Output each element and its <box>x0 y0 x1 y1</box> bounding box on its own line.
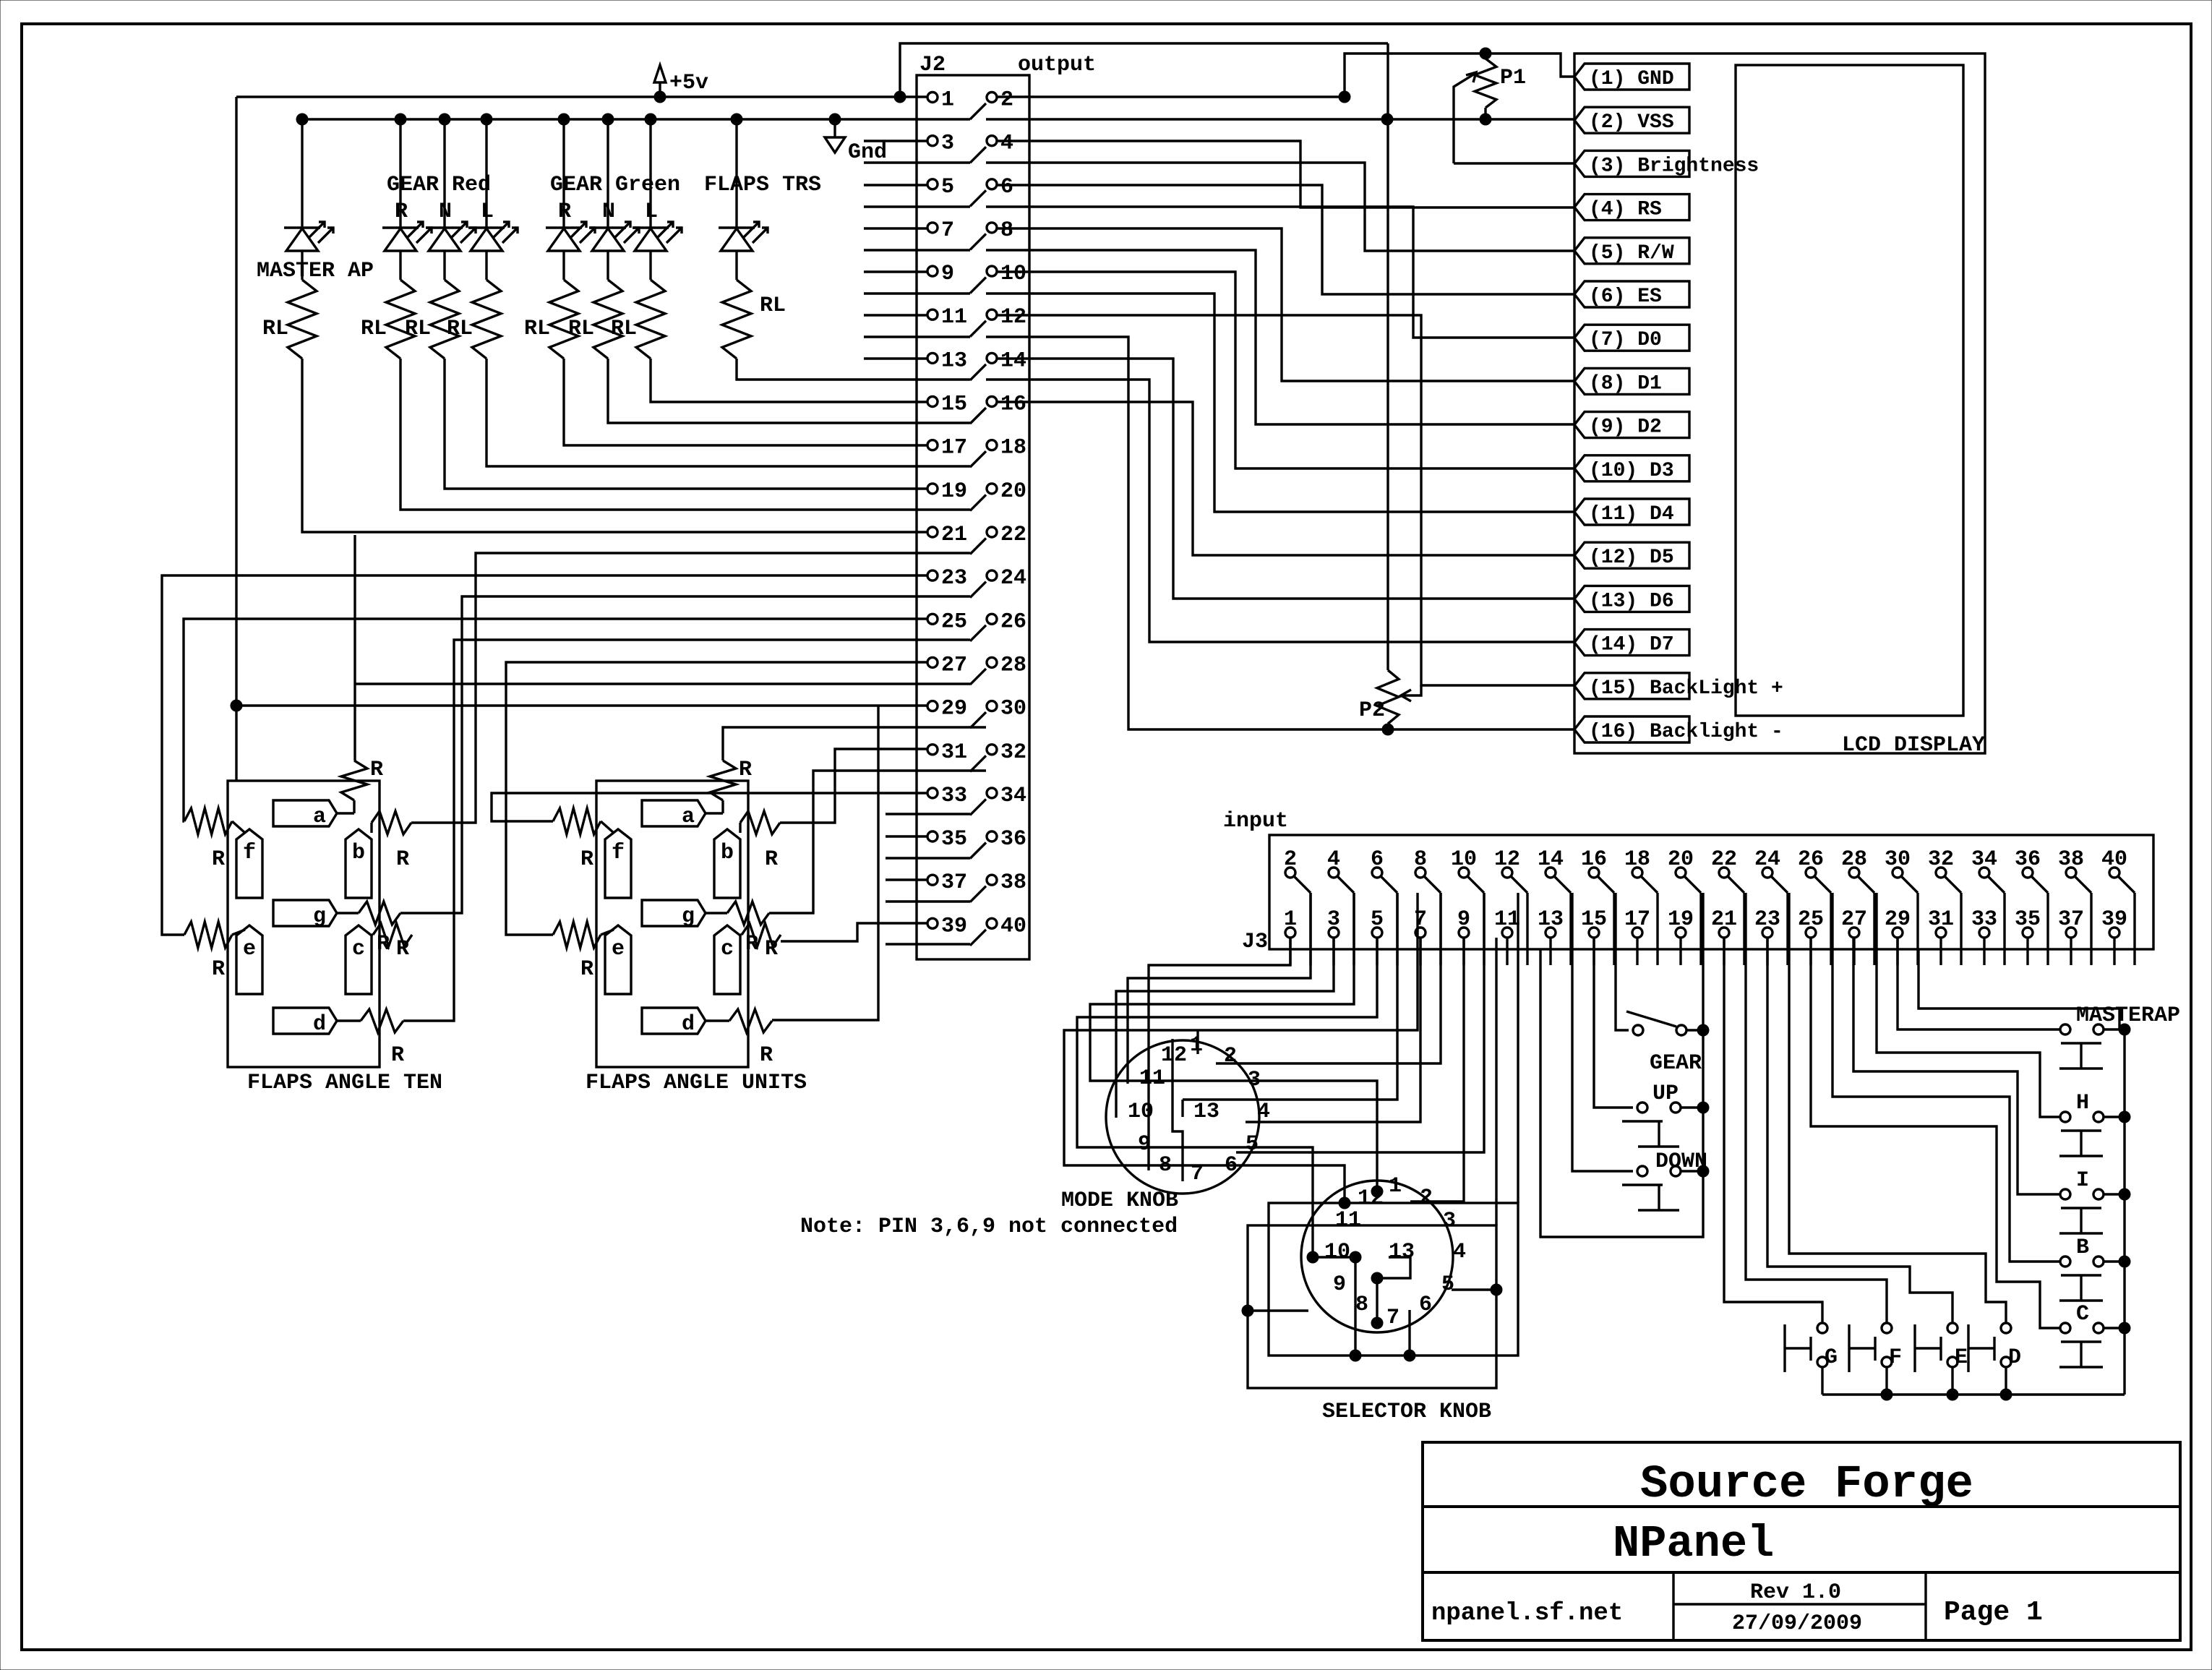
label G <box>1825 1345 1838 1370</box>
J3 pin 7 <box>1414 907 1427 938</box>
svg-text:40: 40 <box>1000 914 1026 938</box>
svg-text:R: R <box>580 957 593 982</box>
J3 pin 6 diagonal <box>1381 876 1397 893</box>
svg-text:2: 2 <box>1420 1186 1433 1210</box>
wire J3 pin4 to selector 1 <box>1090 893 1377 1191</box>
svg-text:a: a <box>682 805 695 829</box>
svg-text:g: g <box>682 904 695 929</box>
svg-text:B: B <box>2076 1236 2089 1260</box>
label RL GEAR Red N <box>405 317 431 341</box>
J2 pin 28 <box>987 653 1026 677</box>
svg-text:E: E <box>1955 1345 1968 1370</box>
SELECTOR KNOB pin 13 label <box>1389 1240 1415 1264</box>
wire J3 pin 29 stub <box>1896 938 1898 965</box>
svg-text:3: 3 <box>1327 907 1340 932</box>
J3 pin 1 <box>1284 907 1297 938</box>
wire J3 pin14diag to DOWN sw <box>1572 893 1633 1171</box>
label RL GEAR Red L <box>447 317 473 341</box>
svg-text:7: 7 <box>941 218 954 243</box>
switch H <box>2059 1112 2104 1156</box>
wire J3 pin7 to mode 4 <box>1246 938 1420 1122</box>
SELECTOR rect inner <box>1269 1203 1518 1356</box>
wire pin29 rail <box>231 700 927 711</box>
J3 pin 28 <box>1841 847 1867 878</box>
svg-text:(4) RS: (4) RS <box>1589 199 1662 221</box>
wire J3 pin 8 stub <box>1439 893 1441 965</box>
resistor RL GEAR Green R <box>549 280 578 359</box>
svg-text:15: 15 <box>1581 907 1607 932</box>
SELECTOR KNOB pin 11 label <box>1335 1208 1361 1233</box>
J3 pin 5 <box>1371 907 1384 938</box>
junction rail 2701 <box>1947 1389 1958 1400</box>
7seg tag b UNITS <box>714 829 740 898</box>
wire J3 pin 39 stub <box>2113 938 2115 965</box>
switch GEAR lever <box>1626 1011 1686 1035</box>
wire J3 pin 34 stub <box>2003 893 2005 965</box>
J3 pin 18 diagonal <box>1641 876 1658 893</box>
wire LED to J2 GEAR Green L <box>651 359 927 402</box>
wire J3 pin 9 stub <box>1462 938 1465 965</box>
J3 pin 32 <box>1928 847 1954 878</box>
wire J2 left stub row 376 <box>864 270 927 273</box>
junction C right <box>2104 1322 2130 1334</box>
wire J3 pin2 to mode 11 <box>1128 893 1311 1084</box>
wire switch column vertical <box>2123 1029 2125 1395</box>
svg-text:23: 23 <box>1754 907 1780 932</box>
svg-text:3: 3 <box>1443 1209 1456 1233</box>
svg-text:14: 14 <box>1538 847 1564 872</box>
svg-text:5: 5 <box>941 175 954 200</box>
label RL GEAR Green L <box>611 317 637 341</box>
svg-text:19: 19 <box>941 479 967 504</box>
wire pair56 to D0 tag <box>986 207 1574 338</box>
MODE KNOB pin 6 label <box>1225 1153 1238 1178</box>
J3 pin 10 <box>1451 847 1477 878</box>
label R a UNITS <box>739 758 752 782</box>
svg-text:4: 4 <box>1257 1100 1270 1124</box>
resistor RL GEAR Red L <box>472 280 501 359</box>
J2 pin 14 <box>987 348 1026 373</box>
svg-text:17: 17 <box>1624 907 1650 932</box>
wire pin23 to TEN e <box>162 575 927 935</box>
svg-text:6: 6 <box>1371 847 1384 872</box>
J3 pin 10 diagonal <box>1467 876 1484 893</box>
LED GEAR Green L <box>633 222 682 251</box>
svg-text:10: 10 <box>1000 262 1026 286</box>
svg-text:35: 35 <box>2015 907 2041 932</box>
wire pair78 to D2 tag <box>986 250 1574 424</box>
SELECTOR KNOB pin 9 label <box>1333 1272 1346 1297</box>
7seg tag e UNITS <box>605 925 631 994</box>
junction LED rail FLAPS TRS <box>731 114 742 125</box>
LED GEAR Red N <box>426 222 476 251</box>
svg-text:7: 7 <box>1386 1306 1399 1330</box>
J2 pin 32 switch diagonal <box>970 755 986 771</box>
svg-text:30: 30 <box>1885 847 1911 872</box>
SELECTOR KNOB pin 7 label <box>1386 1306 1399 1330</box>
svg-text:11: 11 <box>1139 1066 1165 1091</box>
svg-text:21: 21 <box>1711 907 1737 932</box>
junction UP right <box>1697 1102 1709 1113</box>
J2 pin 10 <box>987 262 1026 286</box>
resistor R f TEN <box>184 808 245 834</box>
LCD pin tag (5) R/W <box>1574 238 1689 265</box>
label N red <box>439 200 452 224</box>
J2 pin 38 <box>987 870 1026 895</box>
resistor R g UNITS <box>706 902 769 925</box>
svg-text:12: 12 <box>1494 847 1520 872</box>
svg-text:R: R <box>765 847 778 872</box>
J3 pin 2 <box>1284 847 1297 878</box>
label input <box>1223 809 1288 834</box>
J3 pin 25 <box>1798 907 1824 938</box>
label R g UNITS <box>745 932 758 956</box>
svg-text:RL: RL <box>568 317 594 341</box>
svg-text:RL: RL <box>611 317 637 341</box>
wire selector 13 vertical <box>1376 1278 1378 1323</box>
junction selector (1905,1768) <box>1371 1272 1383 1284</box>
svg-text:(16) Backlight -: (16) Backlight - <box>1589 721 1783 743</box>
J2 pin 36 <box>987 827 1026 852</box>
J2 pin 8 switch diagonal <box>970 234 986 249</box>
svg-text:input: input <box>1223 809 1288 834</box>
svg-text:2: 2 <box>1000 88 1013 113</box>
LCD pin tag (7) D0 <box>1574 325 1689 351</box>
J3 pin 20 <box>1668 847 1694 878</box>
wire J3 to D <box>1789 893 2006 1323</box>
svg-text:c: c <box>721 937 734 962</box>
wire LED anode MASTER AP <box>301 119 303 228</box>
J2 pin 20 switch diagonal <box>970 494 986 510</box>
junction LED rail GEAR Green R <box>558 114 570 125</box>
svg-text:31: 31 <box>941 740 967 765</box>
label NPanel <box>1613 1518 1774 1570</box>
wire TEN b to pin22 <box>411 553 970 823</box>
svg-text:20: 20 <box>1668 847 1694 872</box>
wire F bottom stem <box>1885 1367 1887 1395</box>
connector J2 box <box>917 75 1029 959</box>
resistor R f UNITS <box>553 808 614 834</box>
J3 pin 36 diagonal <box>2031 876 2048 893</box>
svg-text:1: 1 <box>1389 1174 1402 1199</box>
LCD pin tag (6) ES <box>1574 281 1689 308</box>
LCD pin tag (11) D4 <box>1574 499 1689 526</box>
svg-text:17: 17 <box>941 436 967 461</box>
svg-text:26: 26 <box>1798 847 1824 872</box>
wire J3 to I <box>1853 938 2060 1194</box>
wire J2 mid left stub 406 <box>864 292 970 294</box>
wire J3 pin 2 stub <box>1309 893 1311 965</box>
wire LED to J2 GEAR Red N <box>445 359 927 489</box>
svg-text:9: 9 <box>1457 907 1470 932</box>
wire pin6 to ES tag <box>997 185 1574 294</box>
wire J2 left stub row 256 <box>864 184 927 186</box>
svg-text:NPanel: NPanel <box>1613 1518 1774 1570</box>
MODE KNOB pin 2 label <box>1224 1044 1237 1069</box>
wire J3 pin 1 stub <box>1289 938 1291 965</box>
label R f TEN <box>212 847 225 872</box>
junction selector (1875,1739) <box>1350 1251 1361 1263</box>
wire J3 pin13 to selector rect1 <box>1517 893 1519 1203</box>
resistor RL GEAR Green L <box>636 280 665 359</box>
wire selector 6 vertical <box>1408 1310 1410 1356</box>
J2 pin 22 switch diagonal <box>970 539 986 554</box>
svg-text:R: R <box>396 847 409 872</box>
svg-text:11: 11 <box>1335 1208 1361 1233</box>
label R c TEN <box>396 937 409 962</box>
MODE KNOB pin 7 label <box>1191 1162 1204 1186</box>
junction rail 2610 <box>1881 1389 1892 1400</box>
label R b UNITS <box>765 847 778 872</box>
J2 pin 21 <box>927 523 967 547</box>
svg-text:13: 13 <box>1193 1100 1219 1124</box>
svg-text:(6) ES: (6) ES <box>1589 286 1662 308</box>
wire J3 to E <box>1767 938 1952 1323</box>
svg-text:I: I <box>2076 1168 2089 1193</box>
J2 pin 24 <box>987 566 1026 591</box>
MODE KNOB pin 13 label <box>1193 1100 1219 1124</box>
J2 pin 34 <box>987 784 1026 808</box>
svg-text:R: R <box>739 758 752 782</box>
junction selector (1950,1875) <box>1404 1350 1415 1361</box>
svg-text:(14) D7: (14) D7 <box>1589 634 1674 656</box>
J3 pin 28 diagonal <box>1858 876 1874 893</box>
SELECTOR KNOB pin 10 label <box>1324 1240 1350 1264</box>
switch I <box>2059 1189 2104 1233</box>
J2 pin 20 <box>987 479 1026 504</box>
label DOWN <box>1655 1149 1707 1174</box>
label D <box>2008 1345 2021 1370</box>
svg-text:28: 28 <box>1841 847 1867 872</box>
MODE KNOB pin 3 label <box>1248 1068 1261 1092</box>
wire J3 pin8 to mode 2 <box>1216 893 1441 1063</box>
wire J3 pin 30 stub <box>1916 893 1919 965</box>
wire J3 pin 35 stub <box>2026 938 2028 965</box>
svg-text:29: 29 <box>1885 907 1911 932</box>
svg-text:R: R <box>580 847 593 872</box>
J2 pin 27 <box>927 653 967 677</box>
switch D <box>1968 1323 2011 1372</box>
7seg tag d UNITS <box>642 1008 706 1037</box>
MODE KNOB pin 8 label <box>1159 1153 1172 1178</box>
J2 pin 38 switch diagonal <box>970 886 986 902</box>
wire Gnd rail <box>302 118 970 120</box>
label RL FLAPS TRS <box>760 294 786 318</box>
LCD outer box <box>1574 53 1985 753</box>
wire J3 to MASTERAP <box>1898 938 2060 1029</box>
wire UNITS a to pin30 <box>723 727 986 761</box>
junction rail 2775 <box>2000 1389 2012 1400</box>
svg-text:(8) D1: (8) D1 <box>1589 372 1662 395</box>
wire LED cathode GEAR Green N <box>606 251 609 280</box>
wire pin25 to TEN f <box>184 619 927 821</box>
svg-text:25: 25 <box>941 609 967 634</box>
wire LED to J2 GEAR Red L <box>486 359 970 466</box>
svg-text:RL: RL <box>760 294 786 318</box>
J3 pin 9 <box>1457 907 1470 938</box>
junction selector (1875,1875) <box>1350 1350 1361 1361</box>
7seg box UNITS <box>596 781 748 1067</box>
SELECTOR KNOB circle <box>1301 1181 1453 1332</box>
J2 pin 32 <box>987 740 1026 765</box>
label RL MASTER AP <box>262 317 288 341</box>
label J3 <box>1242 930 1268 954</box>
svg-text:e: e <box>243 937 256 962</box>
svg-text:12: 12 <box>1000 305 1026 330</box>
svg-text:24: 24 <box>1000 566 1026 591</box>
J2 pin 26 <box>987 609 1026 634</box>
SELECTOR rect outer <box>1248 1225 1496 1388</box>
label Source Forge <box>1640 1459 1973 1511</box>
SELECTOR KNOB pin 8 label <box>1355 1293 1368 1317</box>
wire E bottom stem <box>1951 1367 1953 1395</box>
J3 pin 15 <box>1581 907 1607 938</box>
svg-text:GEAR Red: GEAR Red <box>387 173 491 197</box>
label FLAPS TRS <box>704 173 821 197</box>
LED GEAR Green R <box>546 222 595 251</box>
wire LED cathode GEAR Green L <box>649 251 651 280</box>
label FLAPS ANGLE TEN <box>247 1071 442 1095</box>
wire J3 pin 6 stub <box>1396 893 1398 965</box>
svg-text:27: 27 <box>1841 907 1867 932</box>
svg-text:RL: RL <box>405 317 431 341</box>
svg-text:19: 19 <box>1668 907 1694 932</box>
J3 pin 12 diagonal <box>1511 876 1527 893</box>
svg-text:FLAPS TRS: FLAPS TRS <box>704 173 821 197</box>
svg-text:R: R <box>396 937 409 962</box>
wire J3 pin14 to selector rect2 <box>1495 938 1497 1225</box>
J2 pin 8 <box>987 218 1013 243</box>
wire LED cathode GEAR Red R <box>399 251 401 280</box>
svg-text:9: 9 <box>1333 1272 1346 1297</box>
wire LED anode GEAR Green N <box>606 119 609 228</box>
wire J2 left stub 1247 <box>886 900 970 902</box>
7seg tag f UNITS <box>605 829 631 898</box>
label MASTERAP <box>2076 1003 2180 1028</box>
J3 pin 37 <box>2058 907 2084 938</box>
junction P1 bottom <box>1480 114 1491 125</box>
svg-text:22: 22 <box>1711 847 1737 872</box>
resistor R c UNITS <box>740 923 781 946</box>
wire LED to J2 GEAR Green R <box>564 359 927 445</box>
J3 pin 17 <box>1624 907 1650 938</box>
svg-text:d: d <box>313 1012 326 1037</box>
label RL GEAR Green R <box>524 317 550 341</box>
J3 pin 23 <box>1754 907 1780 938</box>
svg-text:Gnd: Gnd <box>848 140 887 165</box>
svg-text:13: 13 <box>1538 907 1564 932</box>
label LCD DISPLAY <box>1842 733 1985 758</box>
svg-text:39: 39 <box>941 914 967 938</box>
J2 pin 9 <box>927 262 954 286</box>
junction P2 bottom <box>1382 724 1394 735</box>
resistor R c TEN <box>372 923 412 946</box>
svg-text:25: 25 <box>1798 907 1824 932</box>
wire J3 pin 25 stub <box>1809 938 1812 965</box>
wire J3 pin 7 stub <box>1419 938 1421 965</box>
wire J3 pin 23 stub <box>1766 938 1768 965</box>
wire LED anode FLAPS TRS <box>735 119 737 228</box>
SELECTOR KNOB pin 2 label <box>1420 1186 1433 1210</box>
svg-text:R: R <box>765 937 778 962</box>
svg-text:Page 1: Page 1 <box>1944 1597 2043 1628</box>
wire LED anode GEAR Green L <box>649 119 651 228</box>
svg-text:R: R <box>391 1043 404 1068</box>
J2 pin 33 <box>927 784 967 808</box>
wire UNITS g to pin32 <box>769 771 986 913</box>
wire J3 pin11 to selector 12 <box>1064 893 1418 1203</box>
title block box <box>1423 1442 2180 1640</box>
svg-text:2: 2 <box>1224 1044 1237 1069</box>
junction GEAR right <box>1686 1024 1709 1036</box>
J3 pin 40 <box>2101 847 2127 878</box>
svg-text:GEAR Green: GEAR Green <box>550 173 680 197</box>
J2 pin 18 switch diagonal <box>970 451 986 467</box>
svg-text:GEAR: GEAR <box>1650 1051 1702 1076</box>
label R green <box>558 200 571 224</box>
svg-text:(13) D6: (13) D6 <box>1589 590 1674 612</box>
J2 pin 34 switch diagonal <box>970 799 986 815</box>
resistor RL FLAPS TRS <box>722 280 751 359</box>
resistor R e TEN <box>184 922 245 948</box>
label E <box>1955 1345 1968 1370</box>
svg-text:L: L <box>481 200 494 224</box>
LCD pin tag (3) Brightness <box>1574 150 1759 177</box>
svg-text:24: 24 <box>1754 847 1780 872</box>
7seg tag d TEN <box>273 1008 337 1037</box>
wire pin29 to UNITS d <box>772 706 878 1020</box>
J3 pin 24 <box>1754 847 1780 878</box>
J3 pin 35 <box>2015 907 2041 938</box>
svg-text:output: output <box>1018 53 1096 77</box>
label MODE KNOB <box>1061 1189 1178 1213</box>
svg-text:5: 5 <box>1441 1272 1454 1297</box>
wire J3 pin 24 stub <box>1786 893 1788 965</box>
wire selector 5 to rect <box>1452 1288 1496 1290</box>
svg-text:28: 28 <box>1000 653 1026 677</box>
J3 pin 38 diagonal <box>2075 876 2091 893</box>
junction LED rail GEAR Green N <box>602 114 614 125</box>
J2 pin 28 switch diagonal <box>970 669 986 685</box>
svg-text:4: 4 <box>1000 132 1013 156</box>
label R b TEN <box>396 847 409 872</box>
label Page 1 <box>1944 1597 2043 1628</box>
svg-text:21: 21 <box>941 523 967 547</box>
wire J2 left stub row 195 <box>864 140 927 142</box>
wire pin39 to UNITS c <box>781 923 927 941</box>
label MASTER AP <box>257 259 374 283</box>
label H <box>2076 1091 2089 1116</box>
label R c UNITS <box>765 937 778 962</box>
J3 pin 4 <box>1327 847 1340 878</box>
J2 pin 31 <box>927 740 967 765</box>
label GEAR Green <box>550 173 680 197</box>
wire J3 pin 22 stub <box>1743 893 1745 965</box>
wire J3 pin6 to mode 13 <box>1183 893 1397 1100</box>
svg-text:7: 7 <box>1414 907 1427 932</box>
J2 pin 2 switch diagonal <box>970 103 986 119</box>
J3 pin 38 <box>2058 847 2084 878</box>
title divider 2 <box>1423 1571 2180 1574</box>
wire J3 pin 17 stub <box>1636 938 1638 965</box>
J3 pin 27 <box>1841 907 1867 938</box>
svg-text:D: D <box>2008 1345 2021 1370</box>
label SELECTOR KNOB <box>1322 1400 1491 1424</box>
svg-text:b: b <box>721 841 734 865</box>
label GEAR Red <box>387 173 491 197</box>
junction +5v stub <box>654 91 666 103</box>
wire J2 left stub 1187 <box>886 857 970 859</box>
